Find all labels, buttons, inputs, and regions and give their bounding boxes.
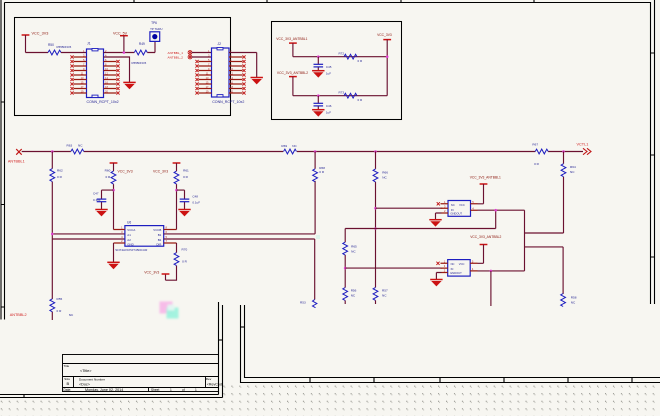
- power+resistor R61 group: [153, 163, 189, 230]
- junction R66 chain / bus: [374, 227, 377, 230]
- page A inner top border + right side down: [5, 3, 651, 305]
- svg-text:VCCB: VCCB: [153, 228, 161, 232]
- svg-text:VCC_3V3: VCC_3V3: [153, 170, 168, 174]
- resistor R62 chain: [50, 152, 63, 240]
- svg-text:R72: R72: [339, 52, 345, 56]
- svg-text:ANTBBL_2: ANTBBL_2: [168, 56, 184, 60]
- svg-text:B: B: [67, 381, 70, 386]
- dotted grid area bottom-left: [0, 400, 223, 416]
- power VCC_3V3 (block1): [22, 32, 49, 53]
- U8 OUT wire: [478, 270, 525, 272]
- svg-text:IN: IN: [451, 267, 454, 271]
- power VCC_3V3_ANTSEL1: [276, 37, 307, 57]
- resistor R64 chain: [561, 152, 576, 234]
- svg-text:U6: U6: [127, 221, 131, 225]
- junction R61/C48: [175, 189, 178, 192]
- U8 ground: [430, 273, 442, 287]
- svg-text:NC: NC: [351, 293, 356, 297]
- wire ANTSEL_2 to J2 pin3: [192, 56, 212, 58]
- junction VCC_5V / pin2: [123, 51, 126, 54]
- junction block2 row1: [317, 55, 320, 58]
- page A outer left border: [0, 0, 2, 320]
- wire1 main horizontal: [22, 151, 583, 153]
- svg-text:R62: R62: [57, 169, 63, 173]
- svg-text:R61: R61: [183, 169, 189, 173]
- svg-text:0 R: 0 R: [57, 309, 63, 313]
- IC U7 (upper switch): [448, 201, 471, 217]
- page B outer left border: [241, 305, 660, 383]
- U8 NC X: [436, 262, 439, 265]
- port ANTSEL1: [8, 149, 25, 164]
- svg-text:CONN_RCPT_10x2: CONN_RCPT_10x2: [87, 100, 119, 104]
- page A right inner border (bottom part): [218, 302, 220, 395]
- page A bottom outer border: [0, 397, 223, 399]
- junction wire1 x51.8: [51, 150, 54, 153]
- U7 OUT wire: [478, 210, 525, 271]
- resistor R49: [134, 42, 147, 55]
- svg-text:NC: NC: [78, 144, 83, 148]
- svg-text:GND: GND: [127, 243, 133, 247]
- svg-text:R57: R57: [382, 288, 388, 292]
- wire B2 bus: [164, 239, 315, 300]
- junction U8 OUT: [490, 270, 493, 273]
- svg-text:0 R: 0 R: [534, 162, 540, 166]
- svg-text:<Title>: <Title>: [80, 369, 92, 373]
- svg-text:J1: J1: [87, 42, 91, 46]
- svg-text:Document Number: Document Number: [79, 377, 105, 381]
- svg-text:R55: R55: [57, 297, 63, 301]
- U6 ground: [107, 243, 119, 269]
- junction A1 tee: [51, 233, 54, 236]
- page B inner left border: [245, 305, 660, 378]
- svg-text:0 R: 0 R: [105, 175, 111, 179]
- svg-text:1uF: 1uF: [326, 111, 331, 115]
- svg-text:VCC_3V3_ANTBBL1: VCC_3V3_ANTBBL1: [470, 175, 501, 179]
- svg-text:VCC_3V3_ANTBBL2: VCC_3V3_ANTBBL2: [277, 71, 308, 75]
- U7 pin numbers: [444, 200, 474, 213]
- svg-text:1: 1: [195, 388, 197, 392]
- svg-text:R60: R60: [105, 169, 111, 173]
- svg-text:NC: NC: [382, 293, 387, 297]
- page A bottom tick: [23, 395, 25, 398]
- U8 pin numbers: [444, 259, 474, 272]
- IC U6 body SN74AVCH2T45DCUR: [115, 221, 163, 253]
- svg-text:0 R: 0 R: [183, 175, 189, 179]
- svg-text:0 R: 0 R: [57, 175, 63, 179]
- capacitor C45: [314, 57, 332, 76]
- svg-text:Date:: Date:: [64, 388, 72, 392]
- svg-text:NC: NC: [351, 249, 356, 253]
- wire row1 block2: [293, 56, 387, 58]
- ground under C47: [95, 210, 107, 217]
- svg-text:IN: IN: [451, 208, 454, 212]
- svg-text:A2: A2: [127, 238, 131, 242]
- resistor R50: [48, 43, 72, 55]
- wire R49 to TP6: [147, 41, 155, 52]
- page B bottom ticks: [310, 378, 632, 383]
- power VCC_3V3 (block2): [377, 33, 392, 96]
- svg-text:NC: NC: [451, 262, 455, 266]
- svg-text:VCCA: VCCA: [127, 228, 135, 232]
- resistor R68 chain: [313, 152, 326, 182]
- wire ANTSEL_1 to J2 pin1: [192, 52, 212, 54]
- wire J2 pin2 to ground: [229, 53, 257, 78]
- svg-text:VCTL1: VCTL1: [577, 143, 589, 147]
- junction wire1 x375: [374, 150, 377, 153]
- power VCC_3V3_ANTSEL1 (U7): [470, 175, 501, 204]
- wire P (R64 link): [525, 232, 564, 234]
- capacitor C47: [93, 190, 114, 209]
- junction R60/C47: [112, 189, 115, 192]
- dotted grid area bottom-right: [223, 385, 660, 416]
- connector J1 body: [87, 42, 119, 104]
- svg-text:R555DNC5: R555DNC5: [57, 45, 72, 49]
- svg-text:ANTBBL1: ANTBBL1: [8, 160, 25, 164]
- svg-text:1uF: 1uF: [326, 72, 331, 76]
- svg-text:1: 1: [170, 388, 172, 392]
- svg-text:R50: R50: [48, 43, 54, 47]
- svg-text:C45: C45: [326, 65, 332, 69]
- J1 left pin numbers: [81, 49, 85, 94]
- page A inner left border: [4, 3, 6, 320]
- svg-text:R63: R63: [67, 144, 73, 148]
- partial resistor on B2: [300, 300, 317, 308]
- page A bottom inner border: [0, 394, 219, 396]
- resistor R58 chain: [561, 247, 577, 307]
- capacitor C48: [177, 190, 201, 209]
- J2 left pins with X: [199, 62, 212, 94]
- svg-text:R70: R70: [182, 248, 188, 252]
- svg-text:B1: B1: [158, 233, 162, 237]
- svg-text:A1: A1: [127, 233, 131, 237]
- resistor R65 chain: [343, 229, 357, 288]
- J2 left pin numbers: [206, 49, 210, 94]
- no-ERC X on ANTSEL_2 wire: [188, 55, 192, 59]
- junction R66 chain / IN1 wire: [374, 207, 377, 210]
- ground under J1: [123, 82, 135, 89]
- svg-text:VCC_3V3_ANTBBL2: VCC_3V3_ANTBBL2: [470, 235, 501, 239]
- junction block2 row2: [317, 94, 320, 97]
- resistor R72: [339, 52, 364, 63]
- wire B1 bus: [164, 181, 315, 234]
- svg-text:Rev: Rev: [206, 377, 212, 381]
- svg-text:0 R: 0 R: [319, 170, 325, 174]
- testpoint TP6: [150, 21, 163, 41]
- svg-text:GNDOUT: GNDOUT: [450, 271, 462, 275]
- svg-text:CONN_RCPT_10x2: CONN_RCPT_10x2: [212, 100, 244, 104]
- svg-text:NC: NC: [382, 175, 387, 179]
- ground under C45: [312, 71, 324, 78]
- wire J1 pin4 to ground: [104, 57, 130, 82]
- svg-text:TP THRU: TP THRU: [150, 27, 162, 31]
- page B left border tick: [241, 326, 245, 328]
- svg-text:R53: R53: [300, 300, 306, 304]
- svg-text:R65: R65: [351, 244, 357, 248]
- power VCC_3V3_ANTSEL2: [277, 71, 308, 96]
- svg-text:R555DNC5: R555DNC5: [132, 61, 147, 65]
- artifact cyan smudge: [316, 235, 320, 239]
- resistor R55 chain to ANTSEL2: [50, 239, 63, 320]
- svg-text:NC: NC: [451, 203, 455, 207]
- svg-text:0 R: 0 R: [182, 260, 188, 264]
- artifact pink/cyan blob: [160, 302, 179, 319]
- resistor R56 (lower, on R65 chain): [343, 288, 357, 305]
- block 1 border box: [15, 18, 231, 116]
- svg-text:VCC: VCC: [459, 262, 465, 266]
- svg-text:Sheet: Sheet: [151, 388, 159, 392]
- resistor R57 (lower, on R66 chain): [373, 287, 388, 304]
- resistor R70 chain with VCC_3V3: [144, 243, 187, 280]
- svg-text:R69: R69: [281, 144, 287, 148]
- svg-text:DIR: DIR: [156, 243, 161, 247]
- wire J1 pin2 to R49: [104, 52, 135, 54]
- wire A1 bus: [52, 233, 125, 235]
- svg-text:SN74AVCH2T45DCUR: SN74AVCH2T45DCUR: [115, 248, 148, 252]
- capacitor C46: [314, 96, 332, 115]
- junction wire1 x314.6: [314, 150, 317, 153]
- svg-text:VCC_3V3: VCC_3V3: [32, 32, 49, 36]
- svg-text:R58: R58: [571, 295, 577, 299]
- svg-text:VCC_3V3: VCC_3V3: [144, 270, 159, 274]
- svg-text:NC: NC: [69, 313, 74, 317]
- svg-text:of: of: [182, 388, 185, 392]
- svg-text:VCC_3V3: VCC_3V3: [377, 33, 392, 37]
- resistor R66 chain: [373, 152, 388, 288]
- title block: [63, 355, 219, 392]
- J2 right pin numbers: [230, 49, 233, 94]
- svg-text:C48: C48: [192, 195, 198, 199]
- J1 left pins with NC X marks: [74, 57, 87, 93]
- svg-text:ANTBBL2: ANTBBL2: [10, 313, 27, 317]
- svg-text:R73: R73: [339, 91, 345, 95]
- svg-text:R56: R56: [351, 288, 357, 292]
- resistor R67: [532, 143, 548, 167]
- left border zone ticks: [1, 102, 5, 307]
- wire R50 to J1 pin1: [61, 52, 87, 54]
- wire to IC2 IN: [345, 267, 442, 269]
- svg-text:NC: NC: [292, 144, 297, 148]
- U7 NC X: [437, 202, 440, 205]
- svg-text:R67: R67: [532, 143, 538, 147]
- ground under C48: [178, 210, 190, 217]
- svg-text:VCC: VCC: [459, 203, 465, 207]
- svg-text:C47: C47: [93, 192, 99, 196]
- power+resistor R60 group: [105, 163, 133, 230]
- block 2 border box: [272, 22, 402, 120]
- svg-text:TP6: TP6: [151, 21, 157, 25]
- top border zone ticks: [134, 0, 534, 3]
- U6 pin stubs: [114, 230, 177, 244]
- wire VCC_3V3 to R50: [26, 52, 49, 54]
- svg-text:NC: NC: [570, 170, 575, 174]
- svg-text:<RevCod: <RevCod: [207, 383, 222, 387]
- svg-text:B2: B2: [158, 238, 162, 242]
- svg-text:GNDOUT: GNDOUT: [450, 212, 462, 216]
- U7 ground: [429, 213, 441, 227]
- page A right border tick: [219, 339, 223, 341]
- right border zone ticks: [651, 53, 655, 257]
- ground under C46: [312, 110, 324, 117]
- svg-text:R64: R64: [570, 165, 576, 169]
- wire to IC1 IN: [376, 207, 443, 209]
- svg-text:R66: R66: [382, 171, 388, 175]
- power VCC_3V3_ANTSEL2 (U8): [470, 235, 501, 263]
- bus wire (OUT net): [345, 210, 496, 228]
- svg-text:VCC_3V3: VCC_3V3: [118, 170, 133, 174]
- resistor R63: [67, 144, 84, 154]
- U6 pin numbers: [121, 226, 167, 244]
- svg-text:VCC_5V: VCC_5V: [113, 31, 128, 35]
- svg-text:<Doc>: <Doc>: [79, 383, 90, 387]
- wire A2 bus: [52, 238, 125, 240]
- junction U7 OUT: [494, 209, 497, 212]
- svg-text:0.1uF: 0.1uF: [93, 198, 101, 202]
- U8 stubs: [441, 263, 478, 272]
- connector J2 body: [212, 42, 245, 104]
- port VCTL1: [577, 143, 592, 155]
- power VCC_5V: [113, 31, 128, 52]
- wire row2 block2: [293, 95, 387, 97]
- U7 stubs: [441, 204, 478, 213]
- svg-text:VCC_3V3_ANTBBL1: VCC_3V3_ANTBBL1: [276, 37, 307, 41]
- svg-text:C46: C46: [326, 104, 332, 108]
- J2 right pins: [229, 57, 243, 93]
- svg-text:NC: NC: [571, 300, 576, 304]
- resistor R69: [281, 144, 297, 154]
- junction R65 chain / IN2 wire: [344, 267, 347, 270]
- svg-text:Monday, June 02, 2014: Monday, June 02, 2014: [85, 388, 123, 392]
- J1 right pins: [104, 62, 117, 94]
- junction block2 right row1: [386, 55, 389, 58]
- junction wire1 x563: [562, 150, 565, 153]
- wire U8 OUT drop: [490, 271, 492, 306]
- page A right outer border (bottom part): [222, 305, 224, 398]
- svg-text:Title: Title: [64, 364, 70, 368]
- page A outer right border: [654, 0, 656, 304]
- resistor R73: [339, 91, 364, 102]
- svg-text:J2: J2: [217, 42, 221, 46]
- svg-text:0.1uF: 0.1uF: [192, 201, 200, 205]
- wire Q (R58 link): [525, 246, 564, 248]
- ground right of J2: [251, 78, 263, 85]
- svg-text:R49: R49: [139, 42, 145, 46]
- svg-text:ANTBBL_1: ANTBBL_1: [168, 51, 184, 55]
- IC U8 (lower switch): [448, 260, 471, 277]
- J1 right pin numbers: [105, 49, 108, 94]
- no-ERC X on ANTSEL_1 wire: [188, 51, 192, 55]
